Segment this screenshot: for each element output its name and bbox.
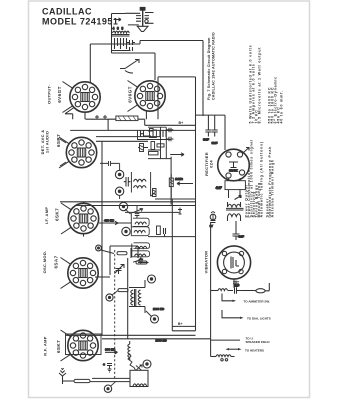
svg-text:Automatic Tuning (All buttons): Automatic Tuning (All buttons) [260, 141, 264, 217]
600KC arrow [105, 348, 118, 355]
dashed tuning gang line [114, 250, 116, 380]
AVC resistor right of IF [157, 226, 166, 237]
right spec labels (rotated) [245, 139, 275, 218]
osc coil [129, 280, 145, 313]
svg-text:TO AMMETER SW.: TO AMMETER SW. [244, 299, 271, 303]
svg-text:1MEG: 1MEG [175, 177, 183, 181]
osc trimmer circle [106, 291, 118, 302]
svg-text:TO HEATERS: TO HEATERS [245, 348, 264, 352]
RF coil [128, 341, 130, 360]
svg-text:8MF: 8MF [203, 138, 209, 142]
circled letter J [146, 307, 164, 323]
title CADILLAC MODEL 7241951 [42, 7, 118, 27]
svg-text:Antenna Trimmer Range: Antenna Trimmer Range [271, 159, 275, 217]
right spec values (rotated) [249, 45, 284, 124]
circled letter F [122, 227, 130, 235]
mid network under T2 [138, 129, 172, 141]
circled letter E [119, 202, 130, 214]
svg-text:CADILLAC 1942 AUTOMATIC RADIO: CADILLAC 1942 AUTOMATIC RADIO [212, 32, 216, 100]
svg-text:40 to 60 mmf.: 40 to 60 mmf. [280, 90, 284, 123]
IF arrow 456KC [84, 202, 132, 237]
bottom right: heater wiring [211, 222, 270, 361]
RF stage rails [66, 335, 211, 342]
detector cluster [138, 127, 193, 198]
svg-text:SPARK: SPARK [229, 169, 238, 173]
IF transformer 1 [132, 243, 150, 264]
fig caption (rotated) [207, 32, 216, 100]
svg-text:6SR7: 6SR7 [56, 134, 61, 147]
osc series resistor [118, 289, 128, 292]
cap 4MF above vibrator [233, 221, 245, 240]
svg-text:B+: B+ [178, 322, 182, 326]
tube V4 6SK7 IF amp [61, 203, 99, 234]
RF shield box [66, 334, 102, 355]
svg-text:I.F. AMP: I.F. AMP [44, 207, 49, 225]
RF cathode parts [103, 364, 112, 373]
svg-text:OSC-MOD.: OSC-MOD. [42, 251, 47, 274]
svg-text:8.5 Microvolts at 1 Watt outpu: 8.5 Microvolts at 1 Watt output [258, 47, 262, 124]
circled A + fuse [210, 212, 216, 228]
tube type labels [54, 86, 133, 353]
wire x127 [127, 258, 129, 339]
svg-text:6SK7: 6SK7 [56, 340, 61, 353]
antenna [59, 368, 74, 384]
svg-text:Fig. 7 Schematic Circuit Diagr: Fig. 7 Schematic Circuit Diagram [207, 37, 211, 100]
bottom right labels [244, 299, 271, 352]
svg-text:4MF: 4MF [216, 186, 222, 190]
diode trimmer circles [100, 161, 131, 199]
osc right connections [95, 246, 149, 277]
circled letter K [143, 360, 151, 368]
resistor under coil [153, 189, 157, 197]
network below output tubes [65, 108, 196, 131]
vibrator [217, 246, 250, 288]
antenna series resistor [74, 378, 130, 382]
heater rails [60, 199, 196, 237]
tube V1 6V6GT output [63, 82, 101, 113]
svg-text:R.F. AMP: R.F. AMP [43, 336, 48, 355]
tube V3 6SR7 det-avc [59, 137, 97, 168]
antenna coil box [128, 353, 148, 387]
svg-text:4MF: 4MF [238, 235, 244, 239]
svg-text:SPEAKER FIELD: SPEAKER FIELD [246, 340, 271, 344]
circled letter H [148, 275, 156, 283]
antenna trimmer circle [104, 381, 116, 392]
svg-text:6SK7: 6SK7 [55, 208, 60, 221]
main vertical buses [102, 77, 196, 335]
svg-text:CADILLAC: CADILLAC [42, 7, 92, 17]
padder trimmer [115, 265, 125, 275]
svg-text:2MF: 2MF [234, 284, 240, 288]
svg-text:8MF: 8MF [212, 141, 218, 145]
8MF filter caps [196, 115, 226, 150]
buffer box under rectifier [216, 178, 246, 190]
det stage rails from V3 [60, 137, 161, 166]
svg-text:1600 KC: 1600 KC [156, 339, 167, 343]
svg-text:6V6GT: 6V6GT [128, 86, 133, 103]
power transformer [226, 190, 244, 221]
circled letter G [96, 245, 114, 253]
top rail wires [90, 41, 203, 120]
svg-text:6V: 6V [210, 224, 214, 228]
svg-text:1600 KC: 1600 KC [153, 307, 164, 311]
osc grid resistor [110, 246, 138, 275]
svg-text:4 6 8: 4 6 8 [113, 27, 125, 31]
speaker [125, 7, 154, 31]
svg-text:6SA7: 6SA7 [54, 255, 59, 268]
svg-text:TO DIAL LIGHTS: TO DIAL LIGHTS [247, 317, 271, 321]
rectifier 0Z4 [218, 148, 250, 181]
rectifier / vibrator labels [204, 152, 214, 273]
svg-text:456 KC: 456 KC [104, 219, 115, 223]
left column stage labels [40, 84, 52, 356]
svg-text:0Z4: 0Z4 [209, 160, 214, 168]
svg-text:MODEL 7241951: MODEL 7241951 [42, 17, 118, 27]
svg-text:VIBRATOR: VIBRATOR [204, 251, 209, 274]
svg-text:600 KC: 600 KC [105, 348, 116, 352]
svg-text:6V6GT: 6V6GT [57, 86, 62, 103]
tube V2 6V6GT output [128, 81, 166, 112]
IF transformer 2 [131, 206, 149, 236]
svg-text:B+: B+ [179, 121, 184, 125]
tube V6 6SK7 RF amp [61, 330, 99, 361]
B+ lines bottom right [172, 326, 195, 330]
tube V5 6SA7 osc-mod [61, 258, 99, 289]
diode coil [131, 172, 155, 196]
svg-text:OUTPUT·: OUTPUT· [47, 84, 52, 104]
output transformer and coupling network [112, 14, 156, 54]
tone control arrow [120, 60, 139, 74]
svg-text:1st AUDIO: 1st AUDIO [45, 131, 50, 153]
